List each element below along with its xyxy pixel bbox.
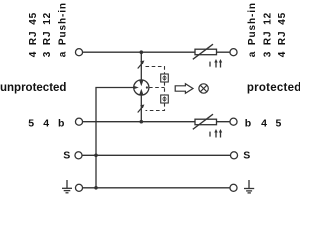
svg-text:a Push-in: a Push-in xyxy=(57,2,68,57)
svg-text:protected: protected xyxy=(247,82,300,94)
svg-text:3 RJ 12: 3 RJ 12 xyxy=(42,12,53,57)
svg-text:3 RJ 12: 3 RJ 12 xyxy=(263,12,274,57)
svg-text:S: S xyxy=(243,150,250,162)
svg-text:5: 5 xyxy=(28,117,34,129)
svg-text:4 RJ 45: 4 RJ 45 xyxy=(28,12,39,57)
svg-text:S: S xyxy=(63,150,70,162)
svg-text:5: 5 xyxy=(275,117,281,129)
svg-text:b: b xyxy=(245,117,251,129)
svg-text:4: 4 xyxy=(261,117,267,129)
svg-text:b: b xyxy=(58,117,64,129)
svg-text:unprotected: unprotected xyxy=(0,82,66,94)
svg-text:4: 4 xyxy=(43,117,49,129)
svg-text:a Push-in: a Push-in xyxy=(247,2,258,57)
svg-text:4 RJ 45: 4 RJ 45 xyxy=(277,12,288,57)
